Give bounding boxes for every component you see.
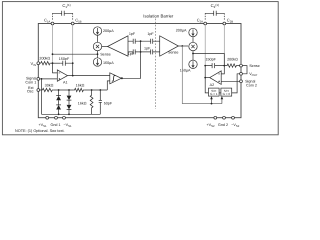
wire Signal Com 2 to A2 input xyxy=(221,80,239,82)
modulator switch X (input side) xyxy=(93,42,101,50)
integrator buffer amp xyxy=(110,73,122,84)
wire summing rail (output side) xyxy=(193,54,224,74)
svg-text:200µA: 200µA xyxy=(103,29,114,33)
node ground branch xyxy=(41,78,43,80)
pin C2B xyxy=(223,22,226,25)
svg-text:1pF: 1pF xyxy=(128,52,135,56)
svg-text:Sense: Sense xyxy=(168,51,178,55)
pin Gnd 2 xyxy=(223,116,226,119)
wire C2B riser into box xyxy=(223,25,225,66)
svg-text:Com 2: Com 2 xyxy=(246,83,257,87)
node summing rail left xyxy=(52,53,54,55)
wire oscillator rail right xyxy=(84,89,107,91)
svg-text:Sense: Sense xyxy=(249,64,259,68)
svg-text:200µA: 200µA xyxy=(176,29,187,33)
demodulator switch X (output side) xyxy=(189,42,197,50)
wire A1 output xyxy=(68,75,110,77)
wire oscillator output riser to integrator amp xyxy=(107,81,110,90)
wire oscillator rail xyxy=(53,89,73,91)
svg-text:A2: A2 xyxy=(210,83,215,87)
isolation barrier dashed line xyxy=(154,19,156,109)
svg-text:16kΩ: 16kΩ xyxy=(76,83,85,87)
node diode column 1 top xyxy=(58,89,60,91)
pin Sense (output) xyxy=(240,64,243,67)
external link Sense to VOUT xyxy=(242,66,247,74)
node diode column 1 bottom xyxy=(58,113,60,115)
wire modulator to 160uA xyxy=(97,51,99,58)
wire C1A riser into box xyxy=(52,25,54,63)
svg-text:1pF: 1pF xyxy=(144,47,151,51)
svg-text:1pF: 1pF xyxy=(147,32,154,36)
capacitor C1 symbol xyxy=(53,11,73,16)
current source 160uA (input side) xyxy=(93,58,101,66)
node summing rail right xyxy=(97,53,99,55)
node 150pF left / A2 output xyxy=(204,65,206,67)
clock arrow into S/H1 xyxy=(211,98,213,104)
svg-text:Isolation Barrier: Isolation Barrier xyxy=(143,13,174,18)
svg-text:Com 1: Com 1 xyxy=(25,81,36,85)
wire summing rail (input side) xyxy=(53,53,98,55)
capacitor C2 symbol xyxy=(205,11,224,16)
svg-text:160µA: 160µA xyxy=(180,69,191,73)
node input summing junction xyxy=(52,62,54,64)
node A2 output tee xyxy=(204,77,206,79)
diode D2 (up) xyxy=(56,100,61,114)
wire 200uA to modulator xyxy=(97,35,99,42)
wire comparator output to demodulator xyxy=(178,45,188,47)
node clock takeoff xyxy=(181,45,183,47)
node cap mid upper xyxy=(140,40,142,42)
wire 200uA to demodulator xyxy=(192,37,194,43)
pin C1B xyxy=(71,22,74,25)
pin VIN xyxy=(37,62,40,65)
pin C2A xyxy=(204,22,207,25)
wire demodulator to 160uA xyxy=(192,51,194,60)
wire A2 output node column xyxy=(205,66,208,93)
node clock tee xyxy=(211,103,213,105)
clock arrow into S/H2 xyxy=(221,98,223,104)
pin -VS2 xyxy=(232,116,235,119)
wire C1B riser to A1 output xyxy=(72,63,74,75)
wire buffer output to cap mid-node xyxy=(121,41,140,78)
sense comparator (output side, points right) xyxy=(160,36,179,56)
svg-text:G = 1: G = 1 xyxy=(210,92,218,96)
clock line from comparator to S/H xyxy=(182,46,222,104)
svg-text:160µA: 160µA xyxy=(103,61,114,65)
svg-text:200kΩ: 200kΩ xyxy=(39,57,50,61)
wire A2 output to left node xyxy=(205,77,210,79)
outer figure frame xyxy=(2,2,278,135)
wire summing node to A1 inverting input xyxy=(53,63,58,73)
pin Signal Com 2 xyxy=(240,80,243,83)
wire comparator output to modulator xyxy=(102,46,108,48)
pin VOUT xyxy=(240,72,243,75)
svg-text:1pF: 1pF xyxy=(129,32,136,36)
svg-text:30kΩ: 30kΩ xyxy=(45,83,54,87)
current source 200uA (output side) xyxy=(189,28,197,36)
sense comparator (input side, points left) xyxy=(108,36,129,56)
bottom common rail xyxy=(42,113,101,115)
svg-text:150pF: 150pF xyxy=(205,58,216,62)
pin Signal Com 1 xyxy=(37,78,40,81)
pin -VS1 xyxy=(63,116,66,119)
C1 dashed leads xyxy=(53,13,73,20)
pin Ext Osc xyxy=(37,89,40,92)
svg-text:G = 6: G = 6 xyxy=(223,92,231,96)
IC package box xyxy=(38,24,241,118)
wire S/H2 output to VOUT riser xyxy=(232,74,240,93)
diode D3 (down) xyxy=(67,90,72,100)
node diode column 2 top xyxy=(68,89,70,91)
svg-text:16kΩ: 16kΩ xyxy=(78,101,87,105)
node diode column 2 bottom xyxy=(68,113,70,115)
wire C1B riser into box xyxy=(72,25,74,63)
current source 200uA (input side) xyxy=(93,27,101,35)
pin C1A xyxy=(51,22,54,25)
node 16k vertical top xyxy=(91,89,93,91)
svg-text:50pF: 50pF xyxy=(104,101,113,105)
node cap mid lower xyxy=(140,51,142,53)
svg-text:NOTE: (1) Optional. See text.: NOTE: (1) Optional. See text. xyxy=(15,129,65,133)
pin +VS1 xyxy=(46,116,49,119)
svg-text:A1: A1 xyxy=(63,81,68,85)
wire S/H1 to S/H2 xyxy=(219,92,221,94)
node A1 output top xyxy=(72,62,74,64)
wire input node xyxy=(51,62,60,64)
sample/hold block 1 xyxy=(209,88,220,96)
svg-text:Gnd 1: Gnd 1 xyxy=(50,123,60,127)
diode D1 (up) xyxy=(56,90,61,96)
op-amp A2 (points left) xyxy=(210,71,222,85)
C2 dashed leads xyxy=(205,13,224,20)
svg-text:Sense: Sense xyxy=(100,52,110,56)
svg-text:Osc: Osc xyxy=(27,90,34,94)
sample/hold block 2 xyxy=(221,88,232,96)
wire ground drop to bottom rail xyxy=(41,79,43,114)
svg-text:200kΩ: 200kΩ xyxy=(227,58,238,62)
pin Gnd 1 xyxy=(55,116,58,119)
op-amp A1 xyxy=(57,70,67,81)
node 50pF top xyxy=(99,89,101,91)
wire C2A riser into box xyxy=(204,25,206,66)
pin +VS2 xyxy=(214,116,217,119)
wire Signal Com 1 to A1 non-inverting input xyxy=(40,78,58,80)
node A1 output / C1B junction xyxy=(72,75,74,77)
node buffer output xyxy=(121,77,123,79)
node 150pF right / summing xyxy=(223,65,225,67)
diode D4 (down) xyxy=(67,100,72,114)
current source 160uA (output side) xyxy=(189,60,197,68)
svg-text:Gnd 2: Gnd 2 xyxy=(218,123,228,127)
node summing rail left xyxy=(192,53,194,55)
svg-text:150pF: 150pF xyxy=(59,57,70,61)
